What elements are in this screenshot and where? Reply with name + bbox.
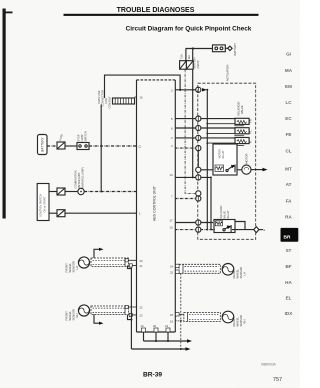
page title Circuit Diagram for Quick Pinpoint Check — [126, 26, 252, 33]
svg-text:RA: RA — [285, 215, 292, 220]
svg-text:EM: EM — [285, 84, 292, 89]
ground bus 2 — [131, 348, 186, 350]
body ground diamond — [254, 227, 263, 233]
wire ignition to fuse A — [49, 191, 57, 193]
front LH shielded cable — [91, 258, 129, 267]
SOLENOID VALVE RELAY label — [220, 205, 230, 218]
ABS control unit box — [137, 80, 176, 332]
svg-text:10A: 10A — [188, 55, 191, 60]
svg-text:RELAY: RELAY — [227, 210, 230, 218]
fusible link connector — [213, 45, 228, 52]
wire DLC drop — [100, 105, 102, 192]
front RH signal wires — [125, 305, 136, 316]
svg-text:ABS CONTROL UNIT: ABS CONTROL UNIT — [153, 185, 157, 221]
svg-text:16: 16 — [140, 96, 144, 100]
ground bus 2 dot — [180, 320, 182, 350]
svg-text:ACTUATOR: ACTUATOR — [226, 64, 230, 81]
junction dots fuse B rail — [192, 89, 194, 179]
ABS CONTROL UNIT label — [153, 185, 157, 221]
svg-text:AT: AT — [286, 182, 292, 187]
svg-text:FOR: FOR — [104, 98, 108, 104]
front RH shield drain — [94, 315, 100, 324]
fuse B — [186, 61, 193, 70]
svg-text:Circuit Diagram for Quick Pinp: Circuit Diagram for Quick Pinpoint Check — [126, 26, 252, 33]
svg-text:BF: BF — [285, 264, 291, 269]
junction dots valve relay feeds — [206, 177, 212, 231]
ground bus 1 arrow — [187, 339, 192, 342]
terminal 2 label — [171, 88, 173, 92]
svg-text:WHEEL: WHEEL — [68, 310, 72, 320]
FUSE label — [58, 133, 64, 141]
svg-text:IGNITION SWITCH: IGNITION SWITCH — [39, 194, 43, 217]
terminal numbers solenoid rows — [171, 117, 173, 140]
svg-text:MOTOR: MOTOR — [244, 153, 248, 163]
svg-text:VALVE: VALVE — [240, 105, 244, 114]
FL label — [248, 130, 252, 134]
rear LH shield drain — [180, 273, 182, 349]
svg-text:MT: MT — [285, 167, 292, 172]
svg-text:COMBINATION: COMBINATION — [74, 170, 78, 188]
terminal ticks through actuator circles — [197, 87, 199, 233]
front RH drain arrow — [99, 322, 104, 325]
footer page number BR-39 — [143, 372, 162, 379]
wire fuse to warning lamp — [65, 191, 78, 193]
solenoid feed junction dots — [206, 123, 208, 144]
actuator dashed enclosure — [198, 83, 256, 239]
motor ground arrow — [263, 168, 268, 172]
ACTUATOR label — [226, 64, 230, 81]
REAR WHEEL SENSOR LH label — [232, 267, 247, 278]
svg-text:FA: FA — [286, 199, 293, 204]
wire battery feed to terminal 2 — [105, 75, 181, 98]
relay L link circle — [196, 191, 201, 196]
terminal 1 label — [139, 212, 141, 216]
FRONT WHEEL SENSOR RH label — [65, 309, 80, 320]
svg-text:CONNECTOR: CONNECTOR — [101, 90, 105, 107]
front wheel sensor LH circle — [78, 257, 89, 268]
terminal 10 row — [175, 227, 215, 232]
motor relay coil row — [175, 146, 201, 151]
svg-text:ST: ST — [286, 248, 292, 253]
battery feed wire top — [186, 48, 213, 50]
DATA LINK CONNECTOR FOR CONSULT label — [97, 90, 143, 109]
svg-text:TROUBLE DIAGNOSES: TROUBLE DIAGNOSES — [117, 7, 195, 14]
svg-text:BATTERY: BATTERY — [41, 136, 45, 151]
fuse A rail to relay L — [185, 69, 195, 193]
fuse (stop lamp) — [57, 142, 65, 149]
svg-text:DATA LINK: DATA LINK — [97, 90, 101, 103]
FRONT WHEEL SENSOR LH label — [65, 261, 80, 272]
section tabs column — [285, 52, 294, 316]
terminal 10 label — [170, 225, 174, 229]
fuse A — [180, 61, 187, 70]
svg-text:WHEEL: WHEEL — [68, 262, 72, 272]
inline connector link — [197, 151, 199, 168]
top fuse rail A — [185, 49, 187, 61]
terminal 17 label — [170, 218, 174, 222]
STOP LAMP SWITCH label — [77, 131, 88, 141]
valve relay box — [214, 220, 235, 233]
solenoid FR row — [175, 116, 235, 121]
motor ground wire — [251, 169, 263, 171]
svg-text:HA: HA — [285, 280, 292, 285]
REAR WHEEL SENSOR RH label — [232, 315, 247, 326]
R label — [248, 141, 252, 143]
rear LH signal wires — [175, 264, 179, 273]
valve relay coil — [215, 221, 222, 226]
control unit bottom terminals — [142, 328, 171, 341]
svg-text:REAR: REAR — [232, 319, 236, 327]
ground bus 1 dots — [155, 340, 169, 342]
footer code MBR093A — [261, 363, 276, 367]
motor relay contact arrow — [231, 165, 236, 169]
junction dot fuse rail A — [179, 89, 181, 91]
rear RH shielded cable — [184, 313, 220, 322]
valve relay contact arrow — [227, 225, 232, 229]
feed rail inside actuator — [206, 90, 208, 230]
junction dot feed — [206, 89, 208, 91]
svg-text:FR: FR — [248, 119, 252, 123]
solenoid FR coil — [207, 118, 249, 126]
wire relay monitor row — [196, 167, 213, 172]
solenoid FL coil — [207, 128, 249, 136]
svg-text:SENSOR: SENSOR — [239, 267, 243, 278]
terminal 4 label — [171, 144, 173, 148]
svg-text:FL: FL — [248, 130, 252, 134]
svg-text:SWITCH: SWITCH — [84, 131, 88, 141]
ignition switch — [37, 184, 49, 221]
svg-text:METER (ABS: METER (ABS — [77, 172, 81, 188]
svg-text:FRONT: FRONT — [65, 311, 69, 321]
BR tab highlighted — [281, 228, 299, 242]
front LH terminal numbers — [140, 259, 143, 268]
MOTOR label — [244, 153, 248, 163]
solenoid FL row — [175, 125, 235, 130]
battery — [38, 135, 48, 155]
node C — [139, 145, 142, 149]
BATTERY label top — [233, 43, 237, 56]
COMBINATION METER (ABS warning lamp) label — [74, 167, 85, 188]
svg-text:BR-39: BR-39 — [143, 372, 162, 379]
svg-text:17: 17 — [170, 218, 174, 222]
left binding strip — [3, 9, 13, 219]
battery source diamond — [228, 46, 232, 50]
svg-text:BATTERY: BATTERY — [233, 43, 237, 56]
svg-text:WHEEL: WHEEL — [236, 268, 240, 278]
front RH shielded cable — [91, 306, 129, 315]
svg-text:SENSOR: SENSOR — [72, 261, 76, 272]
motor relay coil — [215, 165, 224, 172]
front LH signal wires — [125, 259, 136, 267]
svg-text:STOP: STOP — [77, 134, 81, 141]
svg-text:GI: GI — [286, 52, 291, 57]
wire fuse B to control unit — [65, 212, 136, 214]
svg-text:LH: LH — [243, 272, 247, 275]
solenoid R row — [175, 135, 235, 140]
fuse labels top — [181, 54, 200, 68]
svg-text:ON or START: ON or START — [43, 196, 47, 212]
rear LH terminal numbers — [170, 265, 173, 275]
junction lamp wire / DLC drop — [100, 191, 102, 193]
MOTOR RELAY label — [219, 149, 226, 158]
terminal 14 label — [170, 173, 174, 177]
collector junction dot — [130, 319, 132, 321]
fuse B rail down — [192, 69, 194, 177]
motor relay contact — [226, 165, 235, 173]
terminal 7 label — [171, 194, 173, 198]
svg-text:REAR: REAR — [232, 271, 236, 279]
svg-text:RELAY: RELAY — [222, 150, 225, 158]
pump motor — [242, 165, 251, 174]
fuse (warning lamp) — [57, 188, 65, 195]
svg-text:BR: BR — [284, 235, 291, 241]
rear RH terminal numbers — [170, 313, 173, 323]
SOLENOID VALVE label — [237, 102, 245, 116]
bottom terminal numbers — [141, 324, 169, 328]
ground stub label — [264, 229, 266, 232]
svg-text:SENSOR: SENSOR — [72, 309, 76, 320]
svg-text:RH: RH — [243, 320, 247, 324]
svg-text:EC: EC — [285, 116, 292, 121]
rear wheel sensor LH circle — [222, 264, 234, 276]
front LH shield drain — [94, 249, 100, 258]
svg-text:MBR093A: MBR093A — [261, 363, 276, 367]
svg-text:10: 10 — [170, 225, 174, 229]
arrow into actuator — [202, 88, 207, 91]
svg-text:FE: FE — [286, 132, 292, 137]
front RH terminal numbers — [140, 306, 143, 318]
valve relay contact — [223, 222, 254, 233]
svg-text:14: 14 — [170, 173, 174, 177]
wire fuse to stop lamp switch — [65, 145, 77, 147]
solenoid R coil — [207, 138, 249, 146]
svg-text:CONSULT: CONSULT — [108, 96, 112, 109]
top fuse rail B — [192, 49, 194, 61]
ground bus 2 arrow — [186, 347, 191, 350]
BATTERY label — [41, 136, 45, 151]
wire battery to fuse — [47, 145, 57, 147]
actuator terminal circle row 2 — [196, 87, 201, 92]
terminal 14 row — [175, 175, 211, 180]
svg-text:FRONT: FRONT — [65, 263, 69, 273]
svg-text:7.5A: 7.5A — [181, 54, 184, 59]
svg-text:RH: RH — [75, 314, 79, 318]
fuse (ignition feed) — [57, 210, 65, 217]
front LH drain arrow — [99, 248, 104, 251]
motor relay box — [213, 144, 237, 175]
svg-text:LH: LH — [75, 266, 79, 269]
wire warning lamp to control unit — [84, 191, 136, 193]
svg-text:LAMP: LAMP — [80, 134, 84, 141]
IGNITION SWITCH ON or START label — [39, 194, 47, 217]
junction dot battery feed — [192, 47, 194, 49]
svg-text:EL: EL — [286, 296, 292, 301]
shield collector line front sensors — [128, 265, 132, 349]
ground bus 1 — [144, 340, 188, 342]
svg-text:SENSOR: SENSOR — [239, 315, 243, 326]
front wheel sensor RH circle — [78, 305, 89, 316]
svg-text:R: R — [248, 141, 252, 143]
page header rule — [64, 14, 259, 16]
header title TROUBLE DIAGNOSES — [117, 7, 195, 14]
rear RH signal wires — [175, 313, 184, 321]
svg-text:(MAIN): (MAIN) — [197, 60, 200, 68]
FR label — [248, 119, 252, 123]
svg-text:MA: MA — [285, 68, 293, 73]
svg-text:LC: LC — [285, 100, 292, 105]
rear LH shielded cable — [179, 264, 220, 273]
svg-text:WHEEL: WHEEL — [236, 316, 240, 326]
footer folio 757 — [273, 377, 282, 383]
svg-text:WARNING LAMP): WARNING LAMP) — [81, 167, 85, 188]
svg-text:IDX: IDX — [285, 311, 294, 316]
svg-text:CL: CL — [285, 148, 291, 153]
wire stop lamp switch to node C — [89, 145, 137, 147]
valve relay feed drop — [210, 177, 212, 229]
rear wheel sensor RH circle — [222, 311, 234, 323]
svg-text:757: 757 — [273, 377, 282, 383]
terminal 17 row — [175, 220, 213, 225]
terminal 2 row — [175, 89, 197, 91]
wire ignition to fuse B — [49, 212, 57, 214]
data link connector for CONSULT — [113, 97, 138, 104]
wire relay to motor — [237, 169, 242, 171]
stop lamp switch — [77, 143, 89, 150]
terminal 7 row — [175, 196, 201, 201]
ABS warning lamp — [78, 188, 84, 194]
